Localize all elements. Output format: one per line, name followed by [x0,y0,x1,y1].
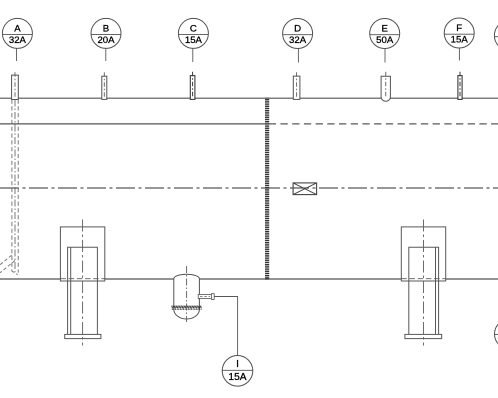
left hanger support foot [65,334,101,338]
circuit tag H (clipped at right edge, lower) [495,319,498,349]
svg-text:E: E [381,24,387,35]
svg-text:B: B [103,24,109,35]
right hanger support column [409,247,439,334]
circuit tag G (clipped at right edge) [494,21,498,51]
drop device I centerline [186,266,188,322]
circuit tag B 20A [91,18,121,61]
left hanger support centerline [82,220,84,346]
left hanger support column [68,247,98,334]
svg-text:C: C [190,24,197,35]
right hanger support centerline [423,220,425,346]
svg-text:D: D [294,24,301,35]
hidden elbow drop at tap A [0,100,18,275]
svg-text:20A: 20A [97,35,115,46]
right hanger support foot [405,334,442,338]
circuit tag D 32A [283,19,313,63]
drop device I threaded band [171,306,201,310]
busway bottom edge (wire) [0,278,498,280]
svg-text:32A: 32A [289,35,307,46]
svg-text:I: I [236,359,239,370]
svg-text:A: A [14,24,21,35]
tap stub C [190,72,195,100]
centerline fitting crossed box [293,183,317,195]
tap stub D [293,72,300,99]
busway inner edge solid segment (wire) [0,123,265,125]
svg-text:F: F [456,23,462,34]
tap stub E (plug-in unit) [381,72,390,101]
circuit tag C 15A [178,18,208,62]
svg-text:15A: 15A [228,372,246,383]
svg-text:32A: 32A [9,35,27,46]
svg-text:15A: 15A [451,34,469,45]
circuit tag E 50A [370,19,400,63]
tap stub B [102,72,107,99]
circuit tag F 15A [444,18,474,61]
wire from connector to tag I [214,297,237,356]
tap stub F [458,72,462,100]
left hanger support outer box [60,227,104,281]
drop device I body [171,266,201,322]
busway bottom edge hidden behind left support [60,278,104,280]
busway bottom edge hidden behind right support [401,278,445,280]
svg-text:50A: 50A [376,35,394,46]
busway top edge (wire) [0,97,498,99]
circuit tag I 15A [222,356,253,387]
busway joint break line [265,98,269,280]
drop device I side connector [198,294,214,300]
circuit tag A 32A [2,18,32,61]
busway centerline [0,187,498,189]
tap stub A [12,72,19,99]
busway inner edge hidden segment (wire) [269,123,498,125]
svg-text:15A: 15A [185,35,203,46]
right hanger support outer box [401,227,445,281]
